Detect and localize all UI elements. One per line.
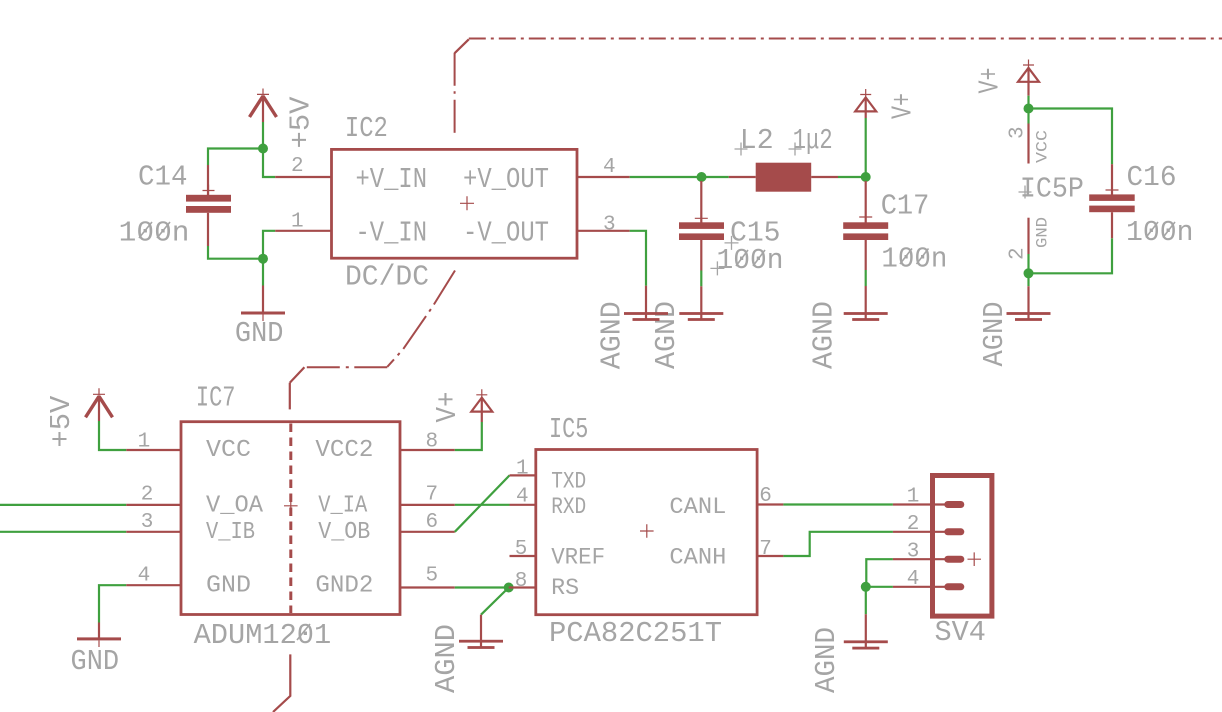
svg-text:100n: 100n <box>119 216 190 249</box>
wire pin6 to IC5 TXD (diagonal) <box>455 475 510 531</box>
IC7 pin 3 stub <box>126 531 181 533</box>
IC2 pin 3 stub <box>577 230 630 232</box>
IC7 pin 4 stub <box>126 584 181 586</box>
ground AGND (C17) <box>844 286 888 321</box>
wire V+ to junction <box>1027 96 1029 109</box>
SV4 pad 3 <box>944 556 964 563</box>
svg-text:CANL: CANL <box>669 494 726 520</box>
svg-text:V+: V+ <box>431 392 464 423</box>
IC7 pin 7 stub <box>400 504 455 506</box>
svg-text:RS: RS <box>551 575 579 601</box>
wire C15 to AGND <box>700 271 702 287</box>
wire junction to AGND <box>1027 273 1029 286</box>
svg-text:1: 1 <box>291 211 304 234</box>
IC5 pin 8 stub <box>509 586 536 588</box>
zero slashes C16 <box>1146 222 1175 238</box>
SV4 pin 3 stub <box>893 558 947 560</box>
dash-dot isolation border, top horizontal <box>469 38 1222 40</box>
svg-text:6: 6 <box>759 485 772 508</box>
dash-dot diagonal below IC2 <box>387 271 455 367</box>
IC7 isolation dashed line <box>289 424 292 614</box>
svg-text:IC7: IC7 <box>196 382 236 415</box>
svg-text:V_OA: V_OA <box>206 492 264 519</box>
svg-text:IC5: IC5 <box>549 413 588 446</box>
svg-text:5: 5 <box>426 565 439 588</box>
IC5P GND pin <box>1027 218 1029 254</box>
ground AGND (RS) <box>459 615 503 649</box>
node junction C17 top <box>861 172 871 182</box>
svg-text:+V_IN: +V_IN <box>356 163 428 196</box>
diode IC5 box <box>536 450 757 615</box>
V+ supply symbol (top) <box>855 89 876 118</box>
ground AGND (C15) <box>679 286 723 321</box>
svg-text:V+: V+ <box>974 68 1007 94</box>
IC2 pin 2 stub <box>275 176 331 178</box>
svg-text:GND: GND <box>206 573 251 600</box>
svg-text:AGND: AGND <box>808 301 841 369</box>
transistor IC7 box <box>181 422 400 615</box>
wire junction down to pin2 <box>263 149 275 178</box>
wire pin8 to V+ <box>455 422 482 450</box>
zero slashes C15 <box>736 250 765 266</box>
svg-text:GND2: GND2 <box>315 573 373 600</box>
wire pin7 to IC5 RXD <box>455 504 510 506</box>
IC5 origin cross <box>640 524 654 538</box>
C15 name origin cross <box>725 236 739 250</box>
dash-dot vertical above IC7 <box>289 383 291 410</box>
L2 name origin cross <box>735 143 748 156</box>
L2 value origin cross <box>789 143 802 156</box>
wire pin4 to L2 <box>630 176 729 178</box>
IC7 origin cross <box>284 499 298 513</box>
zero slashes C17 <box>900 249 929 265</box>
svg-text:+5V: +5V <box>285 96 318 149</box>
svg-text:4: 4 <box>516 486 529 509</box>
dash-dot horizontal y=367 <box>304 366 387 368</box>
capacitor C15 <box>679 181 724 271</box>
svg-text:L2: L2 <box>740 124 774 157</box>
svg-text:CANH: CANH <box>669 544 726 570</box>
wire junction up to pin1 <box>263 231 275 259</box>
svg-text:5: 5 <box>515 538 528 561</box>
svg-text:V_IA: V_IA <box>318 492 368 519</box>
svg-text:+V_OUT: +V_OUT <box>463 163 549 196</box>
svg-text:8: 8 <box>515 570 528 593</box>
svg-text:4: 4 <box>138 565 151 588</box>
node junction IC5P VCC <box>1024 104 1034 114</box>
wire +5V to pin1 <box>99 421 126 450</box>
wire junction to AGND (diagonal) <box>481 588 509 615</box>
svg-text:VCC: VCC <box>1034 130 1052 163</box>
svg-text:V_OB: V_OB <box>318 519 370 546</box>
svg-text:100n: 100n <box>881 242 947 275</box>
svg-text:2: 2 <box>1007 247 1030 260</box>
zero slash ADUM1201 <box>297 624 310 640</box>
svg-text:1: 1 <box>907 485 920 508</box>
svg-text:V_IB: V_IB <box>206 519 255 546</box>
svg-text:IC2: IC2 <box>345 112 388 145</box>
V+ supply symbol (IC5P) <box>1018 60 1039 96</box>
IC2 pin 4 stub <box>577 176 630 178</box>
svg-text:2: 2 <box>291 155 304 178</box>
svg-text:V+: V+ <box>886 93 919 119</box>
node junction C14 bottom <box>258 254 268 264</box>
IC5 pin 7 stub (CANH) <box>757 555 783 557</box>
IC7 pin 8 stub <box>400 449 455 451</box>
wire pin4 to GND <box>99 585 126 622</box>
svg-text:AGND: AGND <box>596 301 629 369</box>
SV4 pad 4 <box>944 583 964 590</box>
IC7 pin 2 stub <box>126 504 181 506</box>
svg-text:C16: C16 <box>1127 161 1177 194</box>
ground GND (IC7) <box>77 623 121 648</box>
wire V_OA (net to left edge) <box>0 504 126 506</box>
svg-text:3: 3 <box>141 511 154 534</box>
wire junction to VCC pin <box>1027 109 1029 124</box>
wire L2 to junction <box>838 176 866 178</box>
svg-text:2: 2 <box>907 513 920 536</box>
wire IC2 pin3 to AGND <box>630 231 646 286</box>
wire junction to C16 top <box>1029 109 1113 165</box>
svg-text:-V_IN: -V_IN <box>356 217 428 250</box>
svg-text:C17: C17 <box>881 189 930 222</box>
svg-text:7: 7 <box>426 484 439 507</box>
svg-text:VCC2: VCC2 <box>315 437 373 464</box>
svg-text:1μ2: 1μ2 <box>793 124 833 157</box>
wire C17 to AGND <box>865 270 867 286</box>
svg-text:-V_OUT: -V_OUT <box>463 217 549 250</box>
node junction RS <box>504 583 514 593</box>
svg-text:GND: GND <box>1034 217 1052 248</box>
capacitor C14 <box>186 165 231 246</box>
wire +5V to junction <box>262 122 264 149</box>
svg-text:8: 8 <box>426 431 439 454</box>
svg-text:IC5P: IC5P <box>1020 172 1084 205</box>
svg-text:GND: GND <box>235 317 284 350</box>
svg-text:DC/DC: DC/DC <box>345 261 429 294</box>
inductor L2 <box>729 163 838 192</box>
svg-text:4: 4 <box>603 156 616 179</box>
node junction C14 top <box>258 144 268 154</box>
IC7 pin 6 stub <box>400 531 455 533</box>
svg-text:VREF: VREF <box>551 544 605 570</box>
capacitor C16 <box>1089 164 1135 238</box>
dash-dot vertical below IC7 <box>273 654 290 712</box>
svg-text:AGND: AGND <box>810 627 843 693</box>
SV4 pin 1 stub <box>893 503 947 505</box>
node junction C15 top <box>697 172 707 182</box>
ground AGND (SV4) <box>844 614 888 649</box>
+5V supply symbol (top) <box>250 89 277 123</box>
svg-text:100n: 100n <box>717 244 784 277</box>
svg-text:VCC: VCC <box>206 437 251 464</box>
C15 value origin cross <box>710 261 724 275</box>
wire junction to GND <box>262 259 264 286</box>
op-amp IC2 DC/DC converter box <box>332 149 578 258</box>
svg-text:SV4: SV4 <box>935 616 986 649</box>
zero slashes C14 <box>139 222 170 238</box>
ground AGND (pin3) <box>624 286 668 321</box>
ground GND (top) <box>241 286 285 322</box>
svg-text:TXD: TXD <box>551 469 586 495</box>
wire V+ to junction <box>865 118 867 177</box>
svg-text:4: 4 <box>907 568 920 591</box>
dash-dot corner to IC7 <box>290 367 305 383</box>
svg-text:6: 6 <box>426 511 439 534</box>
wire CANH to SV4 pin2 <box>783 532 893 556</box>
connector SV4 box <box>933 476 992 617</box>
wire pin5 to IC5 RS <box>455 586 509 588</box>
svg-text:AGND: AGND <box>978 302 1011 367</box>
IC7 pin 5 stub <box>400 586 455 588</box>
svg-text:PCA82C251T: PCA82C251T <box>549 617 722 650</box>
dash-dot corner top <box>455 39 469 53</box>
dash-dot vertical above IC2 <box>454 53 456 137</box>
+5V supply symbol (IC7) <box>86 388 113 421</box>
wire V_IB (net to left edge) <box>0 531 126 533</box>
svg-text:GND: GND <box>71 645 120 678</box>
svg-text:1: 1 <box>138 431 151 454</box>
svg-text:ADUM1201: ADUM1201 <box>194 619 332 652</box>
wire C14 bottom to junction <box>208 246 263 259</box>
capacitor C17 <box>843 181 888 270</box>
SV4 pin 4 stub <box>893 586 947 588</box>
node junction SV4 <box>861 582 871 592</box>
SV4 pin 2 stub <box>893 531 947 533</box>
svg-text:2: 2 <box>141 484 154 507</box>
wire CANL to SV4 pin1 <box>783 503 893 505</box>
wire GND pin to junction <box>1027 254 1029 273</box>
IC2 pin 1 stub <box>275 230 331 232</box>
wire junction to AGND <box>865 587 867 614</box>
svg-text:+5V: +5V <box>45 395 78 448</box>
IC5P origin cross <box>1019 186 1032 199</box>
wire SV4 pin3 to junction <box>866 559 893 587</box>
IC5 pin 1 stub <box>510 474 536 476</box>
IC5 pin 4 stub <box>510 504 536 506</box>
svg-text:7: 7 <box>759 538 772 561</box>
wire junction to SV4 pin4 <box>866 586 893 588</box>
svg-text:3: 3 <box>603 214 616 237</box>
wire junction to C16 bottom <box>1029 238 1113 273</box>
wire junction to C14 top <box>208 149 263 166</box>
svg-text:3: 3 <box>907 541 920 564</box>
svg-text:AGND: AGND <box>650 301 683 369</box>
IC5 pin 5 stub (VREF, unconnected) <box>510 555 536 557</box>
svg-text:1: 1 <box>516 458 529 481</box>
SV4 origin cross <box>968 552 982 566</box>
V+ supply symbol (IC7) <box>471 389 492 422</box>
IC5 pin 6 stub (CANL) <box>757 503 783 505</box>
svg-text:3: 3 <box>1007 126 1030 139</box>
IC5P VCC pin <box>1027 124 1029 164</box>
node junction IC5P GND <box>1024 268 1034 278</box>
SV4 pad 2 <box>944 528 964 535</box>
ground AGND (IC5P) <box>1007 286 1051 321</box>
SV4 pad 1 <box>944 501 964 508</box>
svg-text:AGND: AGND <box>430 624 463 693</box>
IC7 pin 1 stub <box>126 449 181 451</box>
svg-text:100n: 100n <box>1126 216 1194 249</box>
svg-text:C14: C14 <box>138 160 188 193</box>
svg-text:RXD: RXD <box>551 494 586 520</box>
IC2 origin cross <box>460 196 474 210</box>
